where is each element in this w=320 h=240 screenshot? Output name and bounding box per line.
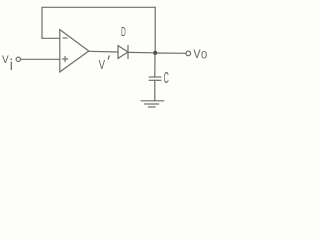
- svg-text:D: D: [121, 24, 126, 39]
- capacitor C: [149, 76, 160, 78]
- svg-text:V: V: [2, 54, 9, 66]
- terminal Vo: [186, 51, 191, 56]
- wire junction down to capacitor: [154, 53, 156, 77]
- wire feedback right vertical to junction: [154, 7, 156, 53]
- label Vi subscript i dot: [11, 58, 13, 60]
- op-amp minus sign: [63, 37, 67, 39]
- wire diode to junction: [128, 51, 155, 53]
- wire capacitor to ground: [154, 80, 156, 101]
- junction node: [153, 51, 157, 55]
- wire inverting input: [42, 37, 60, 39]
- svg-text:V: V: [99, 58, 106, 72]
- wire feedback top rail: [42, 7, 155, 38]
- op-amp plus sign: [63, 58, 68, 60]
- svg-text:V: V: [193, 47, 200, 61]
- label Vi subscript i stem: [10, 62, 12, 70]
- terminal Vi: [16, 57, 20, 61]
- diode D: [118, 46, 128, 59]
- svg-text:0: 0: [201, 50, 207, 62]
- label V' apostrophe: [108, 55, 109, 59]
- wire junction to output terminal: [155, 52, 186, 54]
- svg-text:C: C: [164, 70, 169, 87]
- op-amp U1: [60, 30, 89, 72]
- wire op-amp output to diode: [89, 50, 118, 53]
- ground: [141, 100, 164, 102]
- wire Vi to op-amp: [21, 58, 60, 60]
